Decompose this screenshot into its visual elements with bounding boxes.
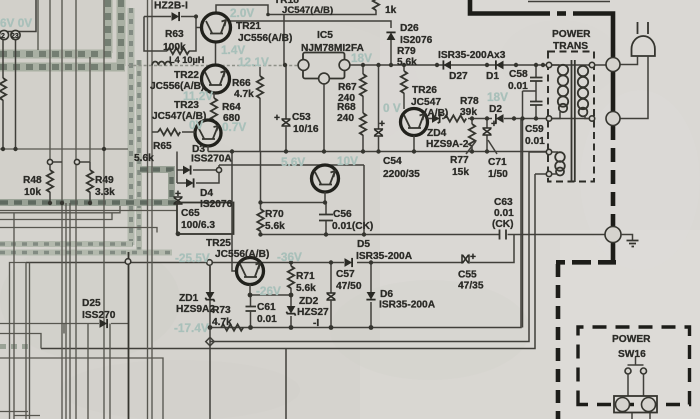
resistor R65 [158, 129, 180, 135]
wire v472 R77 [471, 119, 473, 125]
svg-text:0.01: 0.01 [525, 136, 545, 147]
wire y327 [210, 119, 521, 328]
small box below [632, 413, 650, 419]
wire y348 [41, 174, 535, 349]
wire v487 C71 [486, 119, 488, 152]
wire y295 TR25 [250, 294, 291, 296]
wire left y212 [0, 206, 120, 213]
svg-text:HZ2B-I: HZ2B-I [154, 1, 188, 12]
svg-text:R73: R73 [212, 305, 231, 316]
svg-text:C58: C58 [509, 69, 528, 80]
wire v41 [0, 334, 41, 349]
svg-text:R63: R63 [165, 29, 184, 40]
svg-text:5.6k: 5.6k [134, 153, 154, 164]
wire TR26 emitter [413, 136, 415, 152]
resistor 1k [373, 0, 379, 10]
pin 2 [0, 30, 9, 39]
svg-text:ISS270: ISS270 [82, 310, 116, 321]
wire v66 [65, 203, 67, 419]
svg-text:(CK): (CK) [492, 219, 514, 230]
wire TR21 base [196, 27, 202, 29]
wire v70 [69, 203, 71, 419]
svg-text:R77: R77 [450, 155, 469, 166]
wire v50 top [49, 0, 51, 160]
trace G5 horizontal band [0, 199, 176, 206]
big node circle mid [606, 112, 620, 126]
svg-text:ISR35-200A: ISR35-200A [379, 300, 436, 311]
svg-text:-I: -I [313, 318, 319, 329]
svg-text:10/16: 10/16 [293, 124, 319, 135]
svg-text:5.6k: 5.6k [296, 283, 316, 294]
svg-text:ISR35-200Ax3: ISR35-200Ax3 [438, 50, 506, 61]
diode D25 [100, 319, 108, 328]
svg-text:+: + [274, 113, 280, 124]
svg-text:D27: D27 [449, 71, 468, 82]
IC5 pin1 [298, 60, 309, 71]
svg-text:ISR35-200A: ISR35-200A [356, 251, 413, 262]
trace G1 horizontal [0, 50, 112, 59]
svg-text:4.7k: 4.7k [212, 317, 232, 328]
svg-text:C71: C71 [488, 157, 507, 168]
svg-text:R65: R65 [153, 141, 172, 152]
wire R65 [152, 131, 195, 133]
R63 loop wires [144, 17, 196, 52]
node diamond [206, 337, 214, 345]
svg-text:-25.5V: -25.5V [175, 251, 210, 265]
svg-text:D2: D2 [489, 104, 502, 115]
svg-text:IS2076: IS2076 [200, 199, 233, 210]
relay circle right [642, 398, 656, 412]
pin 23 [11, 30, 20, 39]
svg-text:+: + [491, 119, 497, 130]
wire v38 [37, 0, 39, 50]
svg-text:ZD4: ZD4 [427, 128, 447, 139]
svg-text:TRANS: TRANS [553, 41, 588, 52]
secondary winding [588, 64, 592, 66]
wire v104 [103, 0, 105, 419]
svg-text:18V: 18V [351, 51, 372, 65]
wire v90 [89, 57, 91, 162]
cap C71 [482, 128, 491, 135]
thick dashed vertical x558 [556, 264, 561, 419]
IC5 pin3 [339, 60, 350, 71]
svg-text:JC547(A/B): JC547(A/B) [282, 5, 333, 16]
switch actuator [628, 357, 644, 365]
diode D1 [496, 60, 504, 69]
SW16 dashed box [578, 327, 690, 405]
svg-text:HZS27: HZS27 [297, 307, 329, 318]
svg-text:100/6.3: 100/6.3 [181, 220, 215, 231]
big node circle top [606, 58, 620, 72]
svg-text:D6: D6 [380, 289, 393, 300]
svg-text:2: 2 [1, 33, 5, 40]
wire v284 TR18 [283, 15, 285, 66]
trace G3 horizontal dashed [0, 241, 133, 247]
wire v110 [109, 324, 111, 419]
core lines [572, 60, 575, 182]
diode HZ2B-1 [144, 16, 196, 18]
C65 box [177, 203, 234, 235]
wire v15 pin23 [15, 39, 17, 149]
svg-text:L4 10µH: L4 10µH [169, 55, 205, 65]
trace G2 horizontal [0, 63, 125, 72]
svg-text:0.7V: 0.7V [222, 120, 246, 134]
svg-text:SW16: SW16 [618, 349, 646, 360]
cap C53 chain [285, 65, 287, 119]
wire rail 5.6V y151.5 [208, 151, 549, 153]
svg-text:5.6k: 5.6k [265, 221, 285, 232]
switch contact left [625, 368, 631, 374]
wire v529 winding [529, 151, 549, 153]
diode D3 row [177, 169, 217, 171]
cap C63 [500, 230, 507, 240]
thin top line [528, 1, 610, 3]
cap C57 [330, 263, 332, 294]
wire TR25 bottom [249, 285, 251, 296]
resistor R79 [403, 65, 405, 71]
node open circle -36V [207, 260, 213, 266]
wire v536 cap chain [535, 65, 537, 119]
svg-text:1/50: 1/50 [488, 169, 508, 180]
wire v26 box [25, 263, 27, 419]
IC5 box [303, 53, 345, 79]
wire v3 pin2 [2, 39, 4, 78]
svg-text:R66: R66 [232, 78, 251, 89]
relay circle left [616, 398, 630, 412]
svg-text:-17.4V: -17.4V [174, 321, 209, 335]
C65 plus and cap [173, 197, 182, 204]
svg-text:D26: D26 [400, 23, 419, 34]
svg-text:POWER: POWER [612, 334, 651, 345]
tertiary winding [549, 151, 558, 153]
svg-text:240: 240 [337, 113, 354, 124]
svg-text:TR21: TR21 [236, 21, 261, 32]
svg-text:15k: 15k [452, 167, 469, 178]
svg-text:C63: C63 [494, 197, 513, 208]
svg-text:R68: R68 [337, 102, 356, 113]
wire left y219 [0, 213, 112, 220]
gray rail 12V y65 dashed [128, 65, 304, 67]
zener ZD2 [290, 288, 292, 306]
svg-text:R48: R48 [23, 175, 42, 186]
zener ZD1 [209, 266, 211, 292]
voltage annotations cyan [0, 6, 508, 335]
connector box [0, 0, 36, 32]
resistor R66 chain [259, 67, 261, 76]
wire TR22-TR23 with R64 [213, 93, 215, 98]
wire y324 D25 [0, 323, 128, 325]
svg-text:TR26: TR26 [412, 85, 437, 96]
wire TR21 collector top [216, 5, 268, 15]
svg-text:0.01: 0.01 [494, 208, 514, 219]
svg-text:10V: 10V [337, 154, 358, 168]
node R49 [74, 159, 79, 164]
wire v14 [13, 213, 15, 419]
svg-text:39k: 39k [460, 107, 477, 118]
wire left y210 [0, 210, 177, 212]
svg-text:TR25: TR25 [206, 238, 231, 249]
svg-text:47/35: 47/35 [458, 281, 484, 292]
wire R48 top [50, 161, 62, 163]
svg-text:C57: C57 [336, 269, 355, 280]
transistor TR21 [202, 13, 231, 42]
plug wire left [620, 56, 638, 65]
resistor R63 [167, 48, 189, 54]
node R48 [47, 159, 52, 164]
wire v535 winding [535, 173, 549, 175]
thick corner top [470, 0, 550, 14]
svg-text:C61: C61 [257, 302, 276, 313]
svg-text:0.01: 0.01 [257, 314, 277, 325]
ground symbol [621, 235, 633, 241]
resistor on v3 [0, 78, 6, 100]
wire y358 [0, 358, 163, 419]
svg-text:ZD2: ZD2 [299, 296, 319, 307]
svg-text:+: + [175, 189, 181, 200]
svg-text:R71: R71 [296, 271, 315, 282]
svg-text:C56: C56 [333, 209, 352, 220]
trace G2 vertical [117, 0, 126, 66]
wire y414 marks [0, 412, 40, 416]
svg-text:POWER: POWER [552, 29, 591, 40]
wire left y227 [0, 228, 157, 233]
svg-text:ISS270A: ISS270A [191, 154, 232, 165]
svg-text:C65: C65 [181, 208, 200, 219]
svg-text:2200/35: 2200/35 [383, 169, 420, 180]
svg-text:3.3k: 3.3k [95, 187, 115, 198]
transistor TR25 [237, 258, 264, 285]
wire 1k feed [268, 10, 376, 15]
svg-text:0.01(CK): 0.01(CK) [332, 221, 373, 232]
trace G3 vertical [128, 8, 135, 245]
svg-text:JC556(A/B): JC556(A/B) [215, 249, 269, 260]
svg-text:0 V: 0 V [383, 101, 401, 115]
svg-text:47/50: 47/50 [336, 281, 362, 292]
pointer C71 [488, 140, 497, 154]
cap C54 [378, 65, 380, 129]
wire y341 [210, 152, 529, 342]
switch leads [628, 374, 644, 396]
trace G1 vertical [104, 0, 113, 53]
svg-text:R64: R64 [222, 102, 241, 113]
svg-text:HZS9A2: HZS9A2 [176, 304, 215, 315]
svg-text:5.6V: 5.6V [281, 155, 305, 169]
resistor R49 [89, 162, 91, 170]
svg-text:+: + [470, 252, 476, 263]
svg-text:HZS9A-2: HZS9A-2 [426, 139, 469, 150]
pointer R77 [466, 141, 476, 154]
transistor TR22 [202, 65, 230, 93]
resistor R71 [290, 263, 292, 267]
svg-text:JC556(A/B): JC556(A/B) [238, 33, 292, 44]
trace G4 vertical [136, 60, 142, 252]
wire v210 [209, 266, 211, 419]
svg-text:ZD1: ZD1 [179, 293, 199, 304]
svg-text:4.7k: 4.7k [234, 89, 254, 100]
wire v76 [75, 0, 77, 419]
diode D26 [386, 32, 395, 40]
svg-text:R78: R78 [460, 96, 479, 107]
wire v62 [61, 0, 63, 419]
wire TR21 to D26 [229, 21, 391, 28]
svg-text:D5: D5 [357, 239, 370, 250]
wire -36V rail y262 [26, 235, 514, 263]
inductor L4 [152, 62, 171, 66]
svg-text:D4: D4 [200, 188, 213, 199]
svg-text:C54: C54 [383, 156, 402, 167]
resistor R70 [257, 209, 263, 231]
resistor R67 [362, 65, 364, 74]
plug wire right [620, 56, 648, 119]
diode D2 [496, 114, 504, 123]
svg-text:TR22: TR22 [174, 70, 199, 81]
resistor R78 [442, 118, 444, 120]
svg-text:12.1V: 12.1V [238, 55, 269, 69]
thick dashes below [611, 126, 616, 226]
relay box [614, 396, 657, 413]
wire TR24 emitter [261, 192, 326, 203]
svg-text:11.2V: 11.2V [183, 89, 213, 103]
svg-text:C59: C59 [525, 124, 544, 135]
svg-text:100k: 100k [163, 42, 186, 53]
svg-text:6V 0V: 6V 0V [0, 16, 32, 30]
wire IC5 pin2 down [323, 84, 325, 152]
thick below ground circle [556, 242, 616, 262]
wire R49 top [77, 161, 90, 163]
wire v88 [87, 324, 89, 419]
svg-text:D1: D1 [486, 71, 499, 82]
resistor R48 [49, 164, 51, 170]
svg-text:-26V: -26V [256, 284, 281, 298]
thick mid segment [611, 71, 616, 113]
wire v364 [363, 165, 365, 235]
wire y234 C63 net [260, 234, 605, 236]
wire TR21 emitter [215, 43, 217, 66]
trace G6 corner band [140, 170, 172, 201]
resistor R73 [221, 324, 243, 330]
wire y118 D2 net [468, 118, 592, 120]
svg-text:C53: C53 [292, 112, 311, 123]
trace G4 horizontal dashed [0, 250, 172, 256]
svg-text:(A/B): (A/B) [424, 108, 448, 119]
primary winding [549, 64, 559, 66]
node open circle rectA [125, 259, 131, 265]
IC5 pin2 [319, 73, 330, 84]
wire v64 corner [63, 324, 65, 334]
svg-text:5.6k: 5.6k [397, 57, 417, 68]
svg-text:+: + [379, 119, 385, 130]
gray dash bottom left [0, 344, 28, 349]
zener ZD4 [428, 118, 433, 120]
svg-text:C55: C55 [458, 270, 477, 281]
transistor TR24 [312, 165, 339, 192]
svg-text:18V: 18V [487, 90, 508, 104]
wire left bus y149 [0, 148, 128, 150]
AC plug [632, 36, 655, 56]
wire v177 [176, 152, 178, 184]
cap C55 [462, 254, 469, 263]
cap C58 [530, 78, 543, 82]
svg-text:2.0V: 2.0V [230, 6, 254, 20]
diode D27 [443, 60, 451, 69]
transformer pin nodes [546, 62, 551, 67]
svg-text:10k: 10k [24, 187, 41, 198]
wire v286 box bottom [285, 349, 287, 419]
svg-text:R70: R70 [265, 209, 284, 220]
resistor R77 [469, 124, 475, 146]
diode D4 row [177, 173, 219, 183]
svg-text:JC547: JC547 [411, 97, 441, 108]
svg-text:IS2076: IS2076 [400, 35, 433, 46]
diode D5 [345, 258, 353, 267]
svg-text:IC5: IC5 [317, 30, 333, 41]
svg-text:R79: R79 [397, 46, 416, 57]
svg-text:-36V: -36V [277, 250, 302, 264]
node circle D3 [216, 167, 221, 172]
cap C61 [250, 295, 252, 306]
svg-text:0V: 0V [189, 118, 204, 132]
svg-text:0.01: 0.01 [508, 81, 528, 92]
wire rail y165 [219, 164, 364, 166]
svg-text:R67: R67 [338, 82, 357, 93]
svg-text:D25: D25 [82, 298, 101, 309]
svg-text:R49: R49 [95, 175, 114, 186]
wire v147 [147, 0, 149, 419]
cap C59 [530, 102, 543, 106]
switch contact right [641, 368, 647, 374]
big node circle ground [605, 227, 621, 243]
svg-text:23: 23 [11, 33, 19, 40]
svg-text:1k: 1k [385, 5, 397, 16]
wire TR23 emitter [207, 146, 209, 152]
resistor R68 [360, 113, 366, 135]
wire v128 heavy [128, 252, 130, 419]
wire v232 TR25 feed [232, 152, 237, 272]
diode D6 [370, 263, 372, 293]
wire v152 [151, 0, 153, 419]
transistor TR26 [401, 109, 428, 136]
transformer dashed box [548, 52, 594, 182]
wire v522 C58 mid tap [523, 91, 537, 328]
wire main rail 18V y65 [344, 64, 612, 66]
transistor TR23 [195, 120, 221, 146]
cap C56 [325, 203, 327, 215]
